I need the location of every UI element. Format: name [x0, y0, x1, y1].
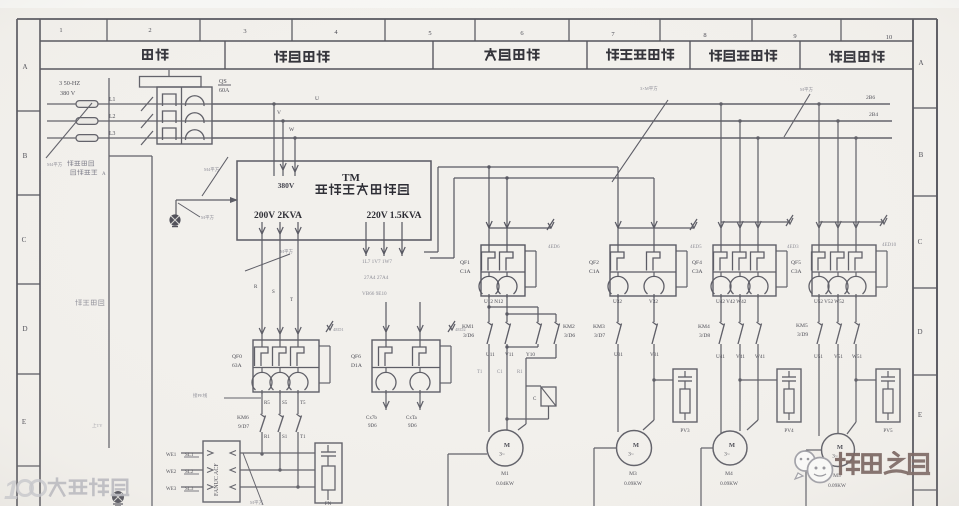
title daoku dianji 刀库电机	[485, 49, 539, 60]
bus 220V line2	[454, 177, 654, 179]
surge filter PV4 feed	[740, 379, 777, 381]
M4 earth wire	[701, 448, 713, 506]
svg-text:U11: U11	[486, 352, 495, 358]
svg-text:S: S	[272, 290, 275, 295]
wire KM6 out T	[296, 432, 299, 489]
wire 220V secondary 2	[381, 222, 387, 256]
wire gauge slash annotation at QS	[202, 157, 228, 196]
wire FANUC to FN line 2	[230, 468, 315, 473]
row ticks left	[17, 111, 40, 466]
watermark text gandianzhijia 赣电之家	[837, 453, 929, 474]
drop QF5 x856	[853, 136, 859, 245]
svg-text:M平方: M平方	[250, 499, 264, 506]
svg-text:W51: W51	[852, 354, 862, 360]
capacitor C1 return	[505, 406, 548, 421]
svg-text:B: B	[23, 152, 28, 160]
svg-text:M平方: M平方	[201, 214, 215, 221]
wire QF6 in 1	[383, 302, 389, 340]
svg-text:T5: T5	[300, 401, 306, 406]
wire M1 phase1	[488, 344, 490, 432]
svg-text:3/D6: 3/D6	[463, 333, 474, 339]
wire QF5 out x838	[837, 296, 839, 322]
contactor KM5 contact a	[817, 322, 823, 344]
contactor KM4 contact c	[756, 322, 762, 344]
wire QF2 pole1 down	[617, 296, 619, 322]
annotation shebei bianjie 设备边界	[75, 300, 104, 306]
svg-text:V11: V11	[505, 352, 514, 358]
motor M4	[713, 431, 747, 465]
wire L1 incoming	[47, 103, 157, 105]
svg-text:63A: 63A	[232, 363, 242, 369]
svg-text:KM6: KM6	[237, 415, 249, 421]
svg-text:4ED10: 4ED10	[882, 243, 897, 248]
svg-text:接PE线: 接PE线	[193, 392, 208, 399]
drop QF4 x758	[755, 136, 761, 245]
wire R1 to line1	[262, 453, 315, 455]
label QS 60A	[218, 79, 231, 94]
svg-text:R5: R5	[264, 401, 270, 406]
wire 220V feeder riser 1	[424, 167, 438, 252]
contactor KM5 contact c	[854, 322, 860, 344]
svg-text:WE1: WE1	[166, 453, 177, 458]
contactor KM6 contact 3	[296, 414, 302, 432]
wire QF1 pole1 down	[488, 296, 490, 322]
svg-text:T: T	[290, 298, 293, 303]
svg-text:380V: 380V	[278, 181, 295, 190]
drop QF1 pole1	[486, 165, 492, 245]
bus gauge annotation 2	[784, 86, 814, 137]
wire M5 phase2	[837, 344, 839, 434]
svg-text:KM3: KM3	[593, 324, 605, 330]
wire QF5 out x819	[818, 296, 820, 322]
drop QF2 pole2	[651, 178, 657, 245]
surge filter PV5	[876, 369, 900, 434]
feed KM2 link2	[505, 312, 556, 322]
annotation jinxian text	[67, 161, 106, 177]
row letters left	[22, 63, 28, 426]
boundary wire vertical x152	[109, 156, 152, 506]
svg-text:M: M	[729, 442, 735, 449]
wire QF1 pole2 down	[506, 296, 508, 322]
circuit breaker QF1 (tool magazine)	[460, 245, 536, 298]
M5 earth wire	[806, 450, 822, 506]
contactor KM4 label	[698, 324, 710, 339]
svg-text:D: D	[917, 328, 922, 336]
svg-text:A: A	[22, 63, 27, 71]
circuit breaker QF0 servo	[232, 340, 330, 394]
svg-text:2B6: 2B6	[866, 95, 875, 101]
bus wire V phase	[212, 120, 892, 122]
svg-text:PV3: PV3	[680, 428, 690, 434]
title row grid	[40, 41, 913, 69]
wire QF6 out 1	[383, 392, 389, 410]
svg-text:2B4: 2B4	[869, 112, 878, 118]
svg-text:KM5: KM5	[796, 323, 808, 329]
labels R1 S1 T1	[264, 435, 306, 440]
row ticks right	[913, 108, 937, 490]
capacitor C1 feed	[526, 385, 541, 387]
svg-text:T1: T1	[477, 370, 483, 375]
contactor KM5 contact b	[836, 322, 842, 344]
net label 2B4	[869, 112, 878, 118]
sheetref QF6	[448, 321, 466, 332]
svg-text:U12 N12: U12 N12	[484, 299, 504, 305]
line filter FN	[315, 443, 342, 506]
transformer TM box	[237, 161, 431, 240]
wire M4 phase1	[720, 344, 722, 433]
svg-text:QS: QS	[219, 79, 227, 85]
svg-text:3~: 3~	[628, 452, 634, 458]
wire KM6 out R	[260, 432, 263, 456]
svg-text:27A4 27A4: 27A4 27A4	[364, 275, 389, 281]
drop QF5 x838	[835, 119, 841, 245]
svg-text:T1: T1	[300, 435, 306, 440]
svg-text:Cx7b: Cx7b	[366, 416, 377, 421]
boundary wire vertical x109	[108, 78, 110, 448]
svg-text:R1: R1	[264, 435, 270, 440]
svg-text:V41: V41	[736, 354, 745, 360]
wire FANUC input 2	[181, 468, 213, 473]
svg-text:KM2: KM2	[563, 324, 575, 330]
drop to TM primary U	[272, 102, 275, 176]
svg-text:C: C	[918, 238, 923, 246]
svg-text:C1A: C1A	[589, 269, 600, 275]
svg-text:QF0: QF0	[232, 354, 242, 360]
title lengque dianji 冷却泵电机	[607, 49, 674, 59]
wire 220V feeder riser 2	[430, 178, 454, 258]
svg-text:M3: M3	[629, 471, 637, 477]
watermark wechat logo	[795, 451, 833, 483]
title dianyuan 电源	[143, 49, 168, 59]
svg-text:R1: R1	[517, 370, 523, 375]
title paixie dianji 排屑电机	[830, 51, 884, 61]
wire M3 phase2	[643, 344, 656, 430]
svg-text:FANUC ACF: FANUC ACF	[214, 463, 220, 496]
circuit breaker QF4 (lube pump)	[692, 245, 787, 298]
contactor KM3 label	[593, 324, 605, 339]
annotation near TM bottom-left	[245, 248, 294, 271]
bus 220V line1	[438, 166, 618, 168]
supply label 3 50-HZ 380V	[59, 80, 80, 97]
bus gauge annotation 1	[612, 85, 668, 182]
contactor KM6 label	[237, 415, 249, 430]
tap QF4 sheetref	[721, 215, 799, 250]
svg-text:U: U	[315, 96, 319, 102]
faint annotation left bottom	[92, 422, 103, 428]
drop to TM primary V	[277, 110, 286, 176]
label M1	[496, 471, 514, 487]
wire 220V secondary 3	[399, 222, 405, 256]
svg-text:M: M	[837, 444, 843, 451]
bus wire U phase	[212, 103, 890, 105]
bus wire W phase	[212, 137, 892, 139]
svg-text:9/D7: 9/D7	[238, 424, 249, 430]
contactor KM1 contact b	[505, 322, 511, 344]
svg-text:C: C	[22, 236, 27, 244]
svg-text:C1A: C1A	[460, 269, 471, 275]
svg-text:M4平方: M4平方	[47, 161, 63, 168]
wire 220V secondary 1	[363, 222, 369, 256]
contactor KM2 contact a	[536, 322, 542, 344]
callout wire number	[193, 392, 261, 399]
svg-text:W: W	[289, 127, 295, 133]
svg-text:V51: V51	[834, 354, 843, 360]
svg-text:L1: L1	[109, 97, 116, 103]
svg-text:E: E	[22, 418, 26, 426]
ground symbol bottom	[112, 491, 124, 506]
circuit breaker QF5 (chip conveyor)	[791, 245, 887, 298]
labels R S T on servo wires	[254, 285, 293, 303]
contactor KM6 contact 1	[260, 414, 266, 432]
wire QF4 out x740	[739, 296, 741, 322]
labels under QF5	[814, 299, 845, 305]
labels U41 V41 W41	[716, 354, 765, 360]
svg-text:A: A	[918, 59, 923, 67]
drop QF4 x740	[737, 119, 743, 245]
svg-text:9D6: 9D6	[368, 424, 377, 429]
svg-text:M平方: M平方	[280, 248, 294, 255]
ground gauge annotation	[178, 203, 215, 221]
KM2b output crossover	[526, 344, 556, 386]
surge filter PV3	[673, 369, 697, 434]
switch blades QS	[141, 97, 153, 145]
circuit breaker QF2 (coolant pump)	[589, 245, 687, 298]
wire QF5 out x856	[855, 296, 857, 322]
svg-text:4ED3: 4ED3	[787, 245, 799, 250]
svg-text:L3: L3	[109, 131, 116, 137]
labels WE SL	[166, 453, 199, 492]
svg-text:PV5: PV5	[883, 428, 893, 434]
wire gauge slash annotation 4sqmm left	[46, 103, 92, 168]
title sifu dianyuan 伺服电源	[275, 51, 329, 61]
ground symbol TM	[169, 214, 180, 226]
svg-text:QF4: QF4	[692, 260, 702, 266]
label 200V 2KVA	[254, 211, 302, 221]
svg-text:C3A: C3A	[692, 269, 703, 275]
title runhua dianji 润滑泵电机	[710, 50, 777, 60]
svg-text:W41: W41	[755, 354, 765, 360]
labels R5 S5 T5	[264, 401, 306, 406]
svg-text:3~: 3~	[724, 452, 730, 458]
contactor KM3 contact a	[616, 322, 622, 344]
contactor KM2 label	[563, 324, 575, 339]
wire 200V secondary 1	[259, 222, 265, 340]
wire FANUC to FN line 1	[230, 451, 315, 456]
capacitor C1	[533, 387, 556, 406]
wire L2 incoming	[47, 120, 157, 122]
disconnect switch QS	[140, 70, 213, 144]
svg-text:220V 1.5KVA: 220V 1.5KVA	[366, 211, 421, 221]
svg-text:C3A: C3A	[791, 269, 802, 275]
wire QF0 out 1	[261, 392, 263, 414]
KM2a output crossover	[505, 344, 538, 349]
svg-text:B: B	[919, 151, 924, 159]
labels under QF4	[716, 299, 747, 305]
label M3	[624, 471, 642, 487]
svg-text:9D6: 9D6	[408, 424, 417, 429]
svg-text:QF6: QF6	[351, 354, 361, 360]
wire FANUC to FN line 3	[230, 485, 315, 490]
svg-text:TM: TM	[342, 172, 360, 184]
svg-text:M1: M1	[501, 471, 509, 477]
svg-text:QF2: QF2	[589, 260, 599, 266]
fuse FU2	[76, 118, 98, 125]
surge filter PV5 feed	[856, 379, 876, 381]
fuse FU1	[76, 101, 98, 108]
wire 200V secondary 2	[277, 222, 283, 340]
svg-text:PV4: PV4	[784, 428, 794, 434]
contactor KM6 contact 2	[278, 414, 284, 432]
contactor KM5 label	[796, 323, 808, 338]
wire QF4 out x721	[720, 296, 722, 322]
M1 earth wire	[448, 454, 487, 506]
svg-text:M4平方: M4平方	[204, 166, 220, 173]
wire KM6 out S	[278, 432, 281, 472]
svg-text:D1A: D1A	[351, 363, 362, 369]
wire TM earth	[176, 197, 238, 215]
svg-text:5: 5	[428, 30, 431, 37]
svg-text:4ED1: 4ED1	[333, 327, 344, 332]
svg-text:A: A	[102, 172, 106, 177]
drop QF5 x819	[816, 102, 822, 245]
svg-text:8: 8	[703, 32, 706, 39]
svg-text:3×M平方: 3×M平方	[640, 85, 658, 92]
svg-text:60A: 60A	[219, 88, 230, 94]
contactor KM3 contact b	[652, 322, 658, 344]
sheetref QF0	[319, 321, 344, 346]
svg-text:0.09KW: 0.09KW	[624, 481, 642, 487]
svg-text:3/D9: 3/D9	[797, 332, 808, 338]
wire FANUC input 3	[181, 485, 213, 490]
wire M5 phase1	[818, 344, 820, 436]
wire QF0 out 3	[297, 392, 299, 414]
svg-text:KM4: KM4	[698, 324, 710, 330]
net label 2B6	[866, 95, 875, 101]
svg-text:0.04KW: 0.04KW	[496, 481, 514, 487]
svg-text:1: 1	[59, 27, 62, 34]
net label U	[315, 96, 319, 102]
contactor KM4 contact a	[719, 322, 725, 344]
servo gauge annotation	[243, 453, 264, 506]
surge filter PV3 feed	[654, 379, 673, 381]
label 220V 1.5KVA	[366, 211, 421, 221]
wire QF0 out 2	[279, 392, 281, 414]
wire M3 phase1	[617, 344, 619, 432]
labels U31 V31	[614, 352, 659, 358]
surge filter PV4	[777, 369, 801, 434]
contactor KM4 contact b	[738, 322, 744, 344]
svg-text:0.09KW: 0.09KW	[828, 483, 846, 489]
tap QF1 sheetref	[489, 219, 560, 250]
svg-text:4ED6: 4ED6	[548, 245, 560, 250]
svg-text:M: M	[633, 442, 639, 449]
labels L1 L2 L3	[109, 97, 116, 137]
svg-text:S1: S1	[282, 435, 288, 440]
svg-text:S5: S5	[282, 401, 288, 406]
svg-text:M: M	[504, 442, 510, 449]
svg-text:FN: FN	[325, 502, 332, 506]
svg-text:4ED2: 4ED2	[455, 327, 466, 332]
labels under QF6	[366, 416, 418, 429]
contactor KM1 label	[462, 324, 474, 339]
svg-text:10: 10	[886, 34, 893, 41]
label M5	[828, 473, 846, 489]
label xitong dongli bianyaqi 系统动力变压器	[316, 184, 408, 195]
column scale ticks	[107, 19, 841, 41]
watermark text dashukuajing 大数跨境	[49, 479, 128, 496]
tap QF5 sheetref	[819, 215, 897, 248]
servo amplifier FANUC box	[203, 441, 240, 502]
svg-text:Y10: Y10	[526, 352, 535, 358]
circuit breaker QF6 control	[351, 340, 451, 394]
wire QF6 out 2	[417, 392, 423, 410]
feed KM2 link1	[487, 305, 538, 322]
svg-text:E: E	[918, 411, 922, 419]
svg-text:3~: 3~	[499, 452, 505, 458]
svg-text:9: 9	[793, 33, 796, 40]
wire FANUC input 1	[181, 451, 213, 456]
wire M4 phase3	[747, 344, 758, 430]
labels under QF2	[613, 299, 658, 305]
svg-text:3: 3	[243, 28, 246, 35]
svg-text:M4: M4	[725, 471, 733, 477]
label M4	[720, 471, 738, 487]
svg-text:M平方: M平方	[800, 86, 814, 93]
svg-text:QF1: QF1	[460, 260, 470, 266]
svg-text:V31: V31	[650, 352, 659, 358]
svg-text:200V 2KVA: 200V 2KVA	[254, 211, 302, 221]
drop to TM primary W	[289, 127, 298, 176]
motor M1	[487, 430, 523, 466]
label 380V	[278, 181, 295, 190]
labels under QF1	[484, 299, 504, 305]
labels U51 V51 W51	[814, 354, 862, 360]
tap QF2 sheetref	[618, 219, 702, 250]
svg-text:3/D6: 3/D6	[564, 333, 575, 339]
watermark logo 100 left	[4, 475, 46, 505]
svg-text:2: 2	[148, 27, 151, 34]
labels under 220V secondary	[362, 259, 392, 297]
svg-text:3/D7: 3/D7	[594, 333, 605, 339]
contactor KM1 contact a	[487, 322, 493, 344]
wire QF2 pole2 down	[653, 296, 655, 322]
drop QF4 x721	[718, 102, 724, 245]
M3 earth wire	[594, 448, 617, 506]
motor M5	[822, 434, 855, 467]
wire M5 phase3	[847, 344, 858, 434]
drop QF1 pole2	[504, 176, 510, 245]
labels U11 V11 Y10	[486, 352, 535, 358]
wire L3 incoming	[47, 137, 157, 139]
svg-text:1L7 1V7 1W7: 1L7 1V7 1W7	[362, 259, 392, 265]
svg-text:WE2: WE2	[166, 470, 177, 475]
motor M3	[617, 431, 652, 466]
row letters right	[917, 59, 923, 419]
drop QF2 pole1	[615, 167, 621, 245]
svg-text:4ED5: 4ED5	[690, 245, 702, 250]
wire M4 phase2	[738, 344, 741, 431]
wire 200V secondary 3	[295, 222, 301, 340]
svg-text:WE3: WE3	[166, 487, 177, 492]
contactor KM2 contact b	[554, 322, 560, 344]
svg-text:3 50-HZ: 3 50-HZ	[59, 80, 80, 87]
svg-text:0.09KW: 0.09KW	[720, 481, 738, 487]
svg-text:3/D8: 3/D8	[699, 333, 710, 339]
svg-text:V: V	[277, 110, 281, 116]
svg-text:D: D	[22, 325, 27, 333]
svg-text:CxTa: CxTa	[406, 416, 418, 421]
svg-text:U31: U31	[614, 352, 623, 358]
